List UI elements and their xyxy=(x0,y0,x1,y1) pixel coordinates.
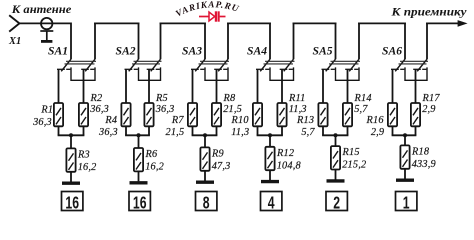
wire: junction to R15 xyxy=(335,135,337,146)
node: junction dot section 3 xyxy=(203,133,207,137)
svg-text:11,3: 11,3 xyxy=(289,104,307,115)
label R10 11,3 xyxy=(231,115,250,138)
svg-text:215,2: 215,2 xyxy=(342,160,366,171)
wire: output line to receiver xyxy=(426,22,460,24)
ground section 1 xyxy=(62,181,80,184)
ground section 6 xyxy=(396,178,414,181)
wire: contact to R5 xyxy=(148,69,150,103)
resistor R6 xyxy=(134,148,143,171)
ground section 5 xyxy=(327,179,345,182)
svg-text:R1: R1 xyxy=(40,105,53,116)
resistor R12 xyxy=(265,147,274,170)
svg-text:R12: R12 xyxy=(276,148,294,159)
node: junction dot section 6 xyxy=(403,133,407,137)
wire: bus SA3 to SA4 xyxy=(227,22,271,24)
switch SA4 mechanical link xyxy=(264,61,295,64)
svg-text:4: 4 xyxy=(268,193,275,213)
label R2 36,3 xyxy=(89,93,109,115)
wire: SA2 right pole riser xyxy=(160,23,162,60)
wire: junction to R3 xyxy=(70,135,72,148)
ground X1 xyxy=(41,40,52,43)
wire: junction bar xyxy=(257,134,283,136)
wire: contact to R14 xyxy=(347,69,349,103)
connector X1 plug arrow xyxy=(9,15,19,31)
switch SA6 contact ticks xyxy=(391,68,426,70)
wire: SA5 right pole riser xyxy=(358,23,360,60)
resistor R13 xyxy=(318,103,327,126)
watermark varicap diode xyxy=(199,11,226,21)
resistor R1 xyxy=(54,103,63,126)
wire: R10 to junction xyxy=(257,126,259,135)
connector X1 socket circle xyxy=(41,18,52,29)
switch SA2 bypass link xyxy=(139,67,161,80)
svg-text:5,7: 5,7 xyxy=(301,127,315,138)
label R16 2,9 xyxy=(366,115,385,138)
output arrowhead xyxy=(458,20,468,27)
wire: bus SA1 to SA2 xyxy=(94,22,139,24)
connector X1 shield bar xyxy=(40,30,53,32)
switch SA2 contact ticks xyxy=(125,68,160,70)
svg-text:SA2: SA2 xyxy=(116,45,136,58)
switch SA1 bypass link xyxy=(71,67,95,80)
svg-text:2,9: 2,9 xyxy=(371,127,384,138)
wire: junction to R6 xyxy=(138,135,140,148)
wire: R17 to junction xyxy=(415,126,417,135)
svg-text:21,5: 21,5 xyxy=(165,127,184,138)
resistor R11 xyxy=(277,103,286,126)
wire: contact to R11 xyxy=(281,69,283,103)
wire: R9 to ground xyxy=(204,171,206,181)
wire: junction bar xyxy=(58,134,85,136)
attenuation box 2 dB xyxy=(326,192,347,214)
wire: SA1 left pole riser xyxy=(70,23,72,60)
resistor R10 xyxy=(253,103,262,126)
svg-text:SA1: SA1 xyxy=(48,45,68,58)
svg-text:R18: R18 xyxy=(411,146,430,157)
switch SA3 contact ticks xyxy=(191,68,227,70)
svg-text:R14: R14 xyxy=(354,93,372,104)
wire: SA3 right pole riser xyxy=(227,23,229,60)
wire: R2 to junction xyxy=(83,126,85,135)
switch SA2 mechanical link xyxy=(132,61,162,64)
node: junction dot section 5 xyxy=(334,133,338,137)
attenuation box 4 dB xyxy=(261,192,282,214)
attenuation box 16 dB xyxy=(62,192,83,214)
switch SA1 blades xyxy=(61,59,95,71)
resistor R16 xyxy=(388,103,397,126)
svg-text:2: 2 xyxy=(333,193,340,213)
svg-text:R11: R11 xyxy=(288,93,305,104)
svg-text:36,3: 36,3 xyxy=(89,104,109,115)
wire: R6 to ground xyxy=(138,171,140,181)
svg-text:R10: R10 xyxy=(231,115,250,126)
wire: bus SA5 to SA6 xyxy=(358,22,406,24)
wire: contact to R4 xyxy=(125,69,127,103)
wire: R13 to junction xyxy=(322,126,324,135)
svg-text:R4: R4 xyxy=(104,115,117,126)
wire: SA2 left pole riser xyxy=(138,23,140,60)
wire: SA1 right pole riser xyxy=(94,23,96,60)
svg-text:16: 16 xyxy=(65,193,79,213)
label R5 36,3 xyxy=(155,93,175,115)
wire: antenna input line xyxy=(19,22,71,24)
svg-text:R2: R2 xyxy=(90,93,103,104)
svg-text:К приемнику: К приемнику xyxy=(390,7,466,19)
attenuation box 1 dB xyxy=(396,192,417,214)
switch SA5 blades xyxy=(326,59,359,71)
wire: contact to R10 xyxy=(257,69,259,103)
wire: R15 to ground xyxy=(335,170,337,180)
svg-text:R16: R16 xyxy=(366,115,385,126)
svg-text:36,3: 36,3 xyxy=(32,117,52,128)
svg-text:2,9: 2,9 xyxy=(422,104,435,115)
wire: junction to R18 xyxy=(404,135,406,145)
wire: R8 to junction xyxy=(216,126,218,135)
resistor R9 xyxy=(200,147,209,170)
wire: SA6 left pole riser xyxy=(404,23,406,60)
label R1 36,3 xyxy=(32,105,53,128)
svg-text:11,3: 11,3 xyxy=(231,127,249,138)
svg-text:47,3: 47,3 xyxy=(212,161,231,172)
wire: R11 to junction xyxy=(281,126,283,135)
svg-text:5,7: 5,7 xyxy=(354,104,368,115)
wire: R5 to junction xyxy=(148,126,150,135)
wire: contact to R1 xyxy=(58,69,60,103)
resistor R7 xyxy=(188,103,197,126)
label R15 215,2 xyxy=(342,147,367,171)
wire: SA5 left pole riser xyxy=(335,23,337,60)
node: junction dot section 4 xyxy=(268,133,272,137)
svg-text:R3: R3 xyxy=(77,149,90,160)
label R7 21,5 xyxy=(165,115,184,138)
resistor R3 xyxy=(66,148,75,171)
svg-text:36,3: 36,3 xyxy=(155,104,175,115)
switch SA3 blades xyxy=(195,59,228,71)
svg-text:21,5: 21,5 xyxy=(223,104,242,115)
wire: R12 to ground xyxy=(269,170,271,180)
label R18 433,9 xyxy=(411,146,436,170)
wire: X1 shield stub xyxy=(46,31,48,40)
svg-text:1: 1 xyxy=(403,193,410,213)
svg-text:R8: R8 xyxy=(223,93,236,104)
svg-text:16: 16 xyxy=(133,193,147,213)
resistor R2 xyxy=(79,103,88,126)
label R11 11,3 xyxy=(288,93,307,115)
wire: SA3 left pole riser xyxy=(204,23,206,60)
wire: contact to R16 xyxy=(392,69,394,103)
svg-text:8: 8 xyxy=(203,193,210,213)
wire: R4 to junction xyxy=(125,126,127,135)
wire: contact to R8 xyxy=(216,69,218,103)
wire: R1 to junction xyxy=(58,126,60,135)
svg-text:SA4: SA4 xyxy=(247,45,267,58)
wire: R16 to junction xyxy=(392,126,394,135)
wire: R7 to junction xyxy=(192,126,194,135)
label R12 104,8 xyxy=(276,148,302,172)
ground section 4 xyxy=(261,180,279,183)
attenuation box 16 dB xyxy=(129,192,150,214)
wire: bus SA2 to SA3 xyxy=(160,22,206,24)
switch SA6 mechanical link xyxy=(399,61,429,64)
svg-text:R15: R15 xyxy=(342,147,360,158)
svg-text:433,9: 433,9 xyxy=(412,159,436,170)
node: junction dot section 1 xyxy=(69,133,73,137)
svg-text:104,8: 104,8 xyxy=(277,160,302,171)
wire: R14 to junction xyxy=(347,126,349,135)
svg-text:К антенне: К антенне xyxy=(11,4,72,16)
label R9 47,3 xyxy=(211,148,231,172)
switch SA1 mechanical link xyxy=(65,61,97,64)
svg-text:SA5: SA5 xyxy=(313,45,333,58)
resistor R14 xyxy=(343,103,352,126)
resistor R8 xyxy=(212,103,221,126)
switch SA3 bypass link xyxy=(205,67,228,80)
wire: junction bar xyxy=(125,134,150,136)
svg-text:R13: R13 xyxy=(296,115,314,126)
switch SA4 blades xyxy=(260,59,293,71)
svg-text:16,2: 16,2 xyxy=(145,162,164,173)
wire: contact to R7 xyxy=(192,69,194,103)
wire: junction bar xyxy=(322,134,348,136)
svg-text:R5: R5 xyxy=(155,93,168,104)
wire: contact to R17 xyxy=(415,69,417,103)
ground section 2 xyxy=(130,181,148,184)
switch SA4 bypass link xyxy=(270,67,294,80)
node: junction dot section 2 xyxy=(137,133,141,137)
wire: junction to R12 xyxy=(269,135,271,147)
wire: junction bar xyxy=(392,134,417,136)
switch SA5 bypass link xyxy=(336,67,360,80)
label R6 16,2 xyxy=(145,149,165,173)
switch SA6 bypass link xyxy=(405,67,427,80)
switch SA3 mechanical link xyxy=(199,61,230,64)
svg-text:SA6: SA6 xyxy=(382,45,402,58)
label R4 36,3 xyxy=(98,115,118,138)
label R17 2,9 xyxy=(422,93,441,115)
label R3 16,2 xyxy=(77,149,97,173)
resistor R18 xyxy=(400,145,409,168)
switch SA2 blades xyxy=(129,59,161,71)
wire: junction to R9 xyxy=(204,135,206,147)
switch SA1 contact ticks xyxy=(57,68,94,70)
switch SA6 blades xyxy=(395,59,427,71)
svg-text:16,2: 16,2 xyxy=(78,162,97,173)
svg-text:R17: R17 xyxy=(422,93,441,104)
ground section 3 xyxy=(196,180,214,183)
wire: junction bar xyxy=(192,134,218,136)
svg-text:R9: R9 xyxy=(211,148,224,159)
svg-text:36,3: 36,3 xyxy=(98,127,118,138)
wire: R18 to ground xyxy=(404,169,406,179)
switch SA5 contact ticks xyxy=(322,68,359,70)
wire: SA4 left pole riser xyxy=(269,23,271,60)
resistor R5 xyxy=(144,103,153,126)
attenuation box 8 dB xyxy=(196,192,217,214)
resistor R15 xyxy=(331,146,340,169)
label R13 5,7 xyxy=(296,115,315,138)
svg-text:R7: R7 xyxy=(171,115,184,126)
resistor R17 xyxy=(411,103,420,126)
wire: SA6 right pole riser xyxy=(426,23,428,60)
svg-text:X1: X1 xyxy=(8,36,21,47)
label R8 21,5 xyxy=(223,93,243,115)
wire: SA4 right pole riser xyxy=(293,23,295,60)
wire: R3 to ground xyxy=(70,172,72,182)
wire: bus SA4 to SA5 xyxy=(293,22,337,24)
wire: contact to R2 xyxy=(83,69,85,103)
label R14 5,7 xyxy=(354,93,372,115)
svg-text:SA3: SA3 xyxy=(182,45,202,58)
svg-text:R6: R6 xyxy=(145,149,158,160)
resistor R4 xyxy=(121,103,130,126)
switch SA4 contact ticks xyxy=(256,68,293,70)
switch SA5 mechanical link xyxy=(329,61,360,64)
wire: contact to R13 xyxy=(322,69,324,103)
